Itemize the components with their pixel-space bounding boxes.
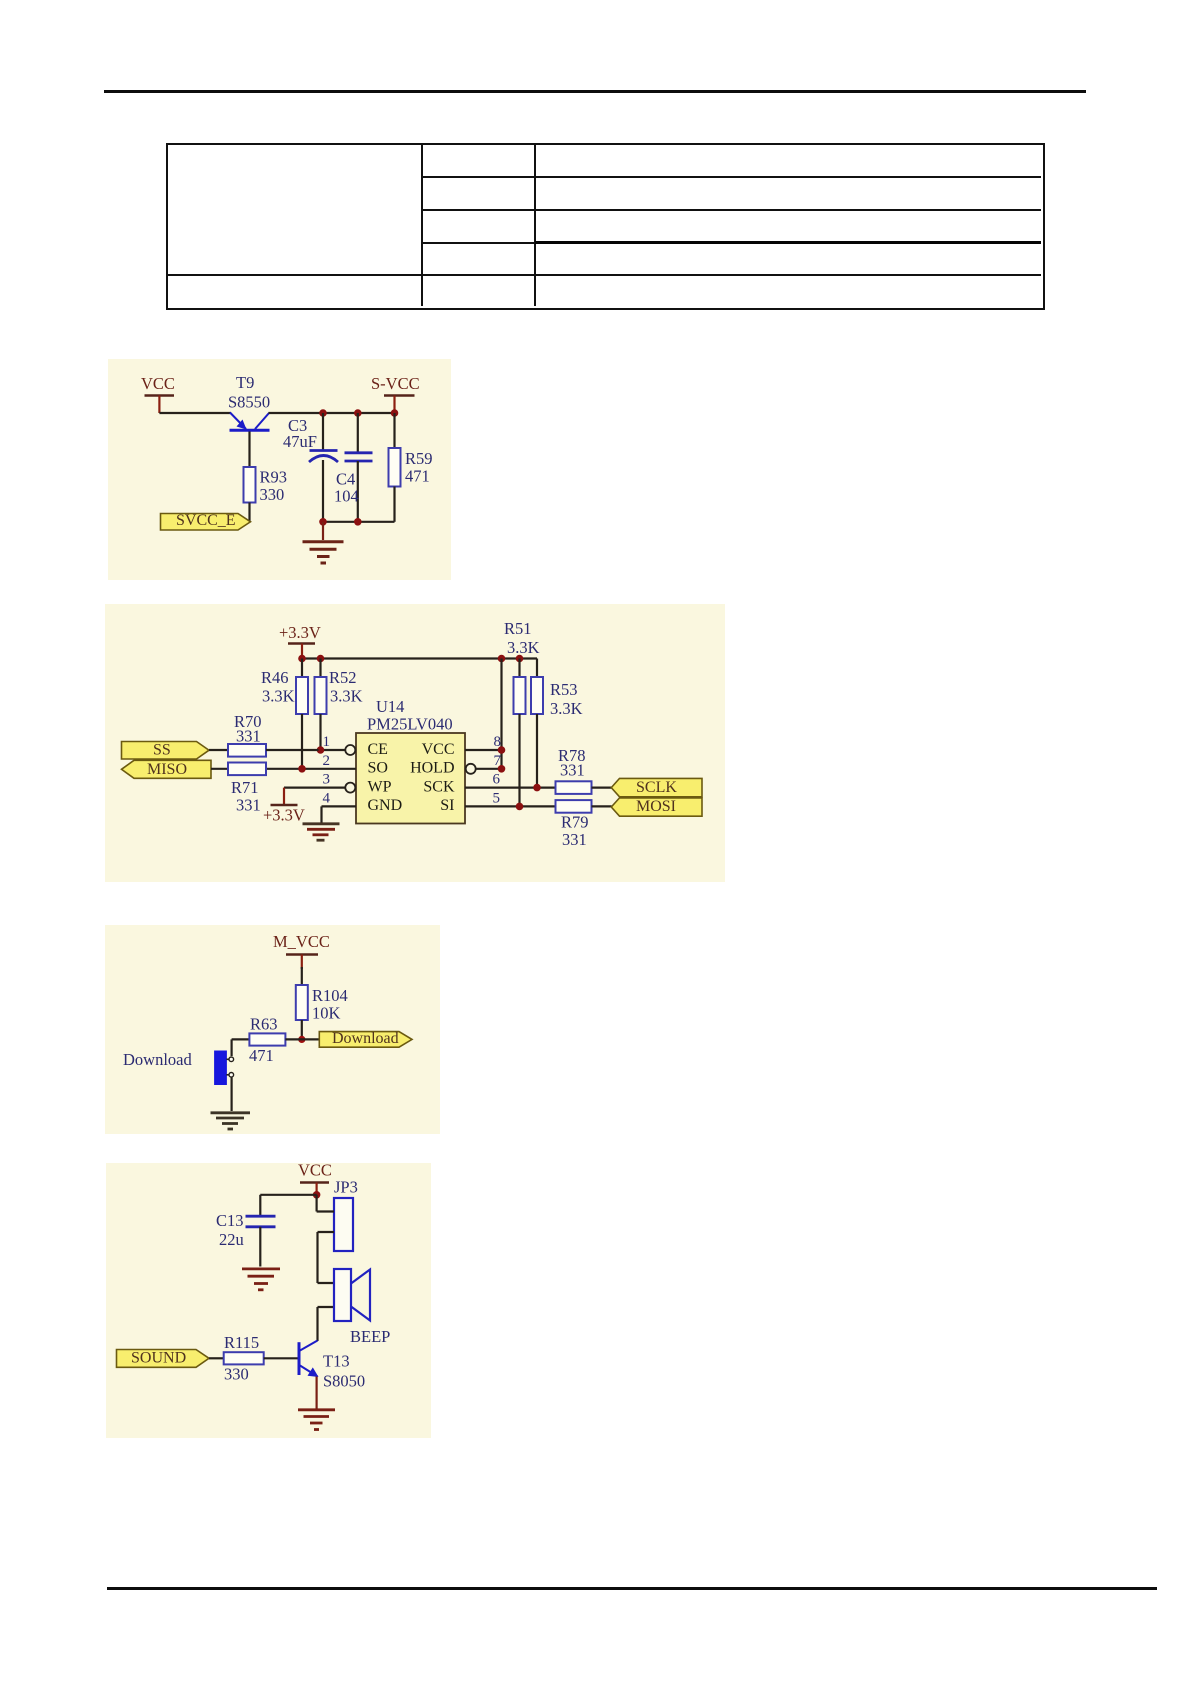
capacitor C4 (334, 413, 373, 522)
svg-text:331: 331 (236, 796, 261, 815)
resistor R70 (228, 712, 319, 757)
table row line 2 (422, 209, 1041, 211)
svg-text:SOUND: SOUND (131, 1350, 186, 1367)
svg-text:VCC: VCC (298, 1161, 332, 1180)
wire JP3 to speaker (316, 1232, 318, 1283)
svg-text:Download: Download (332, 1030, 399, 1047)
svg-text:R59: R59 (405, 449, 433, 468)
svg-text:VCC: VCC (422, 741, 455, 758)
net label SS (122, 742, 210, 760)
bottom horizontal rule (107, 1587, 1157, 1590)
pin 6 SCK wire (465, 772, 556, 788)
capacitor C13 (216, 1195, 276, 1267)
node junction R59 top (391, 409, 399, 417)
pin 5 SI wire (465, 790, 556, 806)
node junction C4 bottom (354, 518, 362, 526)
SCHEMATIC PANEL 4 : BEEP driver (106, 1163, 431, 1438)
node junction R52 top (317, 655, 325, 663)
pin 4 GND wire (322, 790, 357, 822)
svg-text:+3.3V: +3.3V (279, 623, 321, 642)
power M_VCC (273, 932, 330, 969)
capacitor C3 (283, 413, 338, 522)
node junction R51/SI (516, 803, 524, 811)
svg-text:VCC: VCC (141, 374, 175, 393)
svg-text:R53: R53 (550, 680, 578, 699)
ground (211, 1113, 251, 1129)
designator Download (123, 1050, 192, 1069)
svg-text:SCLK: SCLK (636, 779, 677, 796)
pin 7 HOLD (466, 753, 502, 774)
connector JP3 (317, 1178, 358, 1252)
svg-text:U14: U14 (376, 697, 404, 716)
svg-text:3.3K: 3.3K (550, 699, 583, 718)
resistor R71 (228, 763, 266, 815)
panel 1 background (108, 359, 451, 580)
table row line 4 (167, 274, 1041, 276)
wire VCC to T9 emitter (159, 412, 231, 414)
table frame (166, 143, 1045, 310)
svg-text:SI: SI (440, 797, 454, 814)
svg-text:5: 5 (493, 790, 501, 806)
wire M_VCC to R104 (301, 967, 303, 985)
wire T13 emitter to ground (316, 1377, 318, 1409)
node junction pin7 (498, 765, 506, 773)
svg-text:+3.3V: +3.3V (263, 806, 305, 825)
node junction C3 top (319, 409, 327, 417)
node junction VCC (313, 1191, 321, 1199)
node junction R52/CE (317, 746, 325, 754)
pin 8 VCC wire (465, 734, 502, 750)
pin 1 CE (319, 734, 356, 755)
svg-text:SO: SO (368, 760, 388, 777)
svg-text:MOSI: MOSI (636, 798, 676, 815)
SCHEMATIC PANEL 1 : S-VCC switch (108, 359, 451, 580)
svg-text:R79: R79 (561, 813, 589, 832)
svg-text:M_VCC: M_VCC (273, 932, 330, 951)
svg-text:T9: T9 (236, 373, 254, 392)
svg-text:R115: R115 (224, 1333, 259, 1352)
svg-text:Download: Download (123, 1050, 192, 1069)
svg-text:3.3K: 3.3K (507, 638, 540, 657)
node junction R46/SO (298, 765, 306, 773)
resistor R53 (531, 659, 583, 788)
svg-text:R51: R51 (504, 619, 532, 638)
ground (303, 522, 344, 563)
net label SCLK (611, 778, 702, 796)
ground at pin 4 (303, 824, 340, 840)
transistor T9 (228, 373, 270, 467)
svg-text:330: 330 (260, 485, 285, 504)
svg-text:SVCC_E: SVCC_E (176, 512, 236, 529)
svg-text:1: 1 (323, 734, 331, 750)
resistor R46 (261, 659, 308, 769)
transistor T13 (299, 1341, 365, 1391)
svg-text:R71: R71 (231, 778, 259, 797)
svg-text:PM25LV040: PM25LV040 (367, 715, 453, 734)
svg-text:3: 3 (323, 772, 331, 788)
table row line 3 thin part (422, 242, 535, 244)
node junction C4 top (354, 409, 362, 417)
pin 3 WP (284, 772, 355, 793)
power VCC (141, 374, 175, 413)
svg-text:S8550: S8550 (228, 393, 270, 412)
IC U14 PM25LV040 (356, 697, 465, 824)
svg-text:2: 2 (323, 753, 331, 769)
resistor R63 (249, 1015, 319, 1066)
net label MISO (122, 760, 212, 778)
panel 4 background (106, 1163, 431, 1438)
wire +3.3V rail to VCC/HOLD pins (500, 659, 502, 769)
power VCC (298, 1161, 332, 1195)
table column line 2 (534, 145, 536, 306)
node junction C3 bottom (319, 518, 327, 526)
resistor R79 (556, 800, 612, 849)
wire button to R63 (232, 1038, 250, 1040)
resistor R93 (244, 467, 288, 521)
svg-text:SS: SS (153, 742, 171, 759)
bottom wire C3-C4-R59 (323, 521, 395, 523)
svg-text:WP: WP (368, 778, 392, 795)
net label Download (319, 1030, 412, 1047)
svg-text:T13: T13 (323, 1352, 350, 1371)
svg-text:3.3K: 3.3K (330, 687, 363, 706)
svg-text:R52: R52 (329, 668, 357, 687)
svg-text:471: 471 (405, 467, 430, 486)
wire T9 collector to S-VCC node (269, 412, 395, 414)
power +3.3V top (279, 623, 321, 659)
node junction R51 top (516, 655, 524, 663)
svg-text:MISO: MISO (147, 761, 187, 778)
svg-text:330: 330 (224, 1365, 249, 1384)
panel 3 background (105, 925, 440, 1134)
svg-text:SCK: SCK (423, 778, 455, 795)
resistor R52 (315, 659, 363, 751)
pushbutton (215, 1039, 234, 1111)
top horizontal rule (104, 90, 1086, 93)
svg-text:R104: R104 (312, 986, 348, 1005)
resistor R115 (224, 1333, 298, 1384)
table row line 3 thick part (535, 241, 1041, 244)
net label MOSI (611, 798, 702, 816)
wire SS to R70 (209, 749, 228, 751)
table column line 1 (421, 145, 423, 306)
ground at C13 (242, 1269, 280, 1290)
wire VCC rail to C13 (260, 1194, 316, 1196)
svg-text:R63: R63 (250, 1015, 278, 1034)
svg-text:BEEP: BEEP (350, 1327, 390, 1346)
svg-text:331: 331 (236, 727, 261, 746)
wire MISO to R71 (211, 768, 228, 770)
power S-VCC (371, 374, 420, 413)
svg-text:HOLD: HOLD (410, 760, 454, 777)
svg-text:R46: R46 (261, 668, 289, 687)
node junction R63/R104 (298, 1036, 305, 1043)
table row line 1 (422, 176, 1041, 178)
resistor R104 (296, 985, 348, 1039)
svg-text:331: 331 (562, 830, 587, 849)
svg-text:3.3K: 3.3K (262, 687, 295, 706)
svg-text:R93: R93 (260, 468, 288, 487)
wire SOUND to R115 (209, 1357, 224, 1359)
ground at T13 (298, 1410, 335, 1430)
svg-text:S8050: S8050 (323, 1372, 365, 1391)
svg-text:S-VCC: S-VCC (371, 374, 420, 393)
node junction R53/SCK (533, 784, 541, 792)
node junction pin8 (498, 746, 506, 754)
svg-text:4: 4 (323, 790, 331, 806)
resistor R51 (504, 619, 540, 806)
resistor R59 (389, 413, 433, 522)
svg-text:10K: 10K (312, 1004, 341, 1023)
power +3.3V at WP (263, 788, 305, 825)
panel 2 background (105, 604, 725, 882)
svg-text:JP3: JP3 (334, 1178, 358, 1197)
top rail wire (302, 657, 537, 659)
node junction R46 top (298, 655, 306, 663)
svg-text:C13: C13 (216, 1211, 244, 1230)
svg-text:471: 471 (249, 1046, 274, 1065)
net label SVCC_E (161, 512, 251, 530)
SCHEMATIC PANEL 2 : PM25LV040 flash (105, 604, 725, 882)
svg-text:331: 331 (560, 761, 585, 780)
svg-text:104: 104 (334, 487, 359, 506)
resistor R78 (556, 746, 612, 794)
svg-text:GND: GND (368, 797, 403, 814)
wire speaker to T13 collector (316, 1307, 318, 1341)
svg-text:6: 6 (493, 772, 501, 788)
pin 2 SO wire (266, 753, 356, 769)
net label SOUND (117, 1350, 210, 1368)
speaker BEEP (318, 1269, 391, 1346)
svg-text:47uF: 47uF (283, 432, 317, 451)
SCHEMATIC PANEL 3 : Download button (105, 925, 440, 1134)
node junction VCC pullup top (498, 655, 506, 663)
svg-text:CE: CE (368, 741, 388, 758)
svg-text:22u: 22u (219, 1230, 244, 1249)
